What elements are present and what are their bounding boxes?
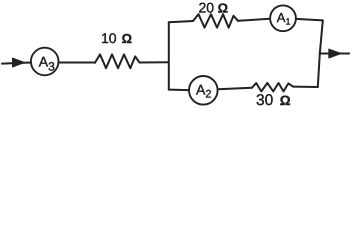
- input current arrowhead: [13, 58, 25, 67]
- ammeter A1: [270, 5, 296, 31]
- wire: left bus to ammeter A2 (bottom branch): [169, 89, 189, 92]
- resistor R2 zigzag (20 ohm): [193, 14, 238, 27]
- svg-text:30Ω: 30Ω: [256, 92, 291, 109]
- wire: resistor 30 ohm to right bus: [293, 86, 318, 88]
- wire: input lead: [2, 63, 31, 64]
- wire: right vertical bus: [318, 20, 323, 87]
- resistor R3 zigzag (30 ohm): [252, 83, 293, 91]
- wire: A3 to resistor 10 ohm: [59, 62, 96, 64]
- wire: resistor 20 ohm to ammeter A1: [238, 19, 270, 21]
- wire: ammeter A2 to resistor 30 ohm: [218, 88, 252, 90]
- wire: resistor 10 ohm to left node: [140, 61, 169, 63]
- wire: ammeter A1 to right bus: [296, 19, 323, 21]
- wire: left vertical bus: [168, 22, 170, 89]
- ammeter A2: [189, 76, 218, 105]
- output current arrowhead: [329, 49, 341, 58]
- svg-text:20Ω: 20Ω: [199, 0, 229, 15]
- resistor R1 zigzag (10 ohm): [95, 54, 140, 68]
- wire: left bus to resistor 20 ohm (top branch): [169, 21, 193, 22]
- ammeter A3: [31, 48, 59, 76]
- wire: output lead: [320, 53, 350, 55]
- svg-text:10Ω: 10Ω: [101, 30, 132, 46]
